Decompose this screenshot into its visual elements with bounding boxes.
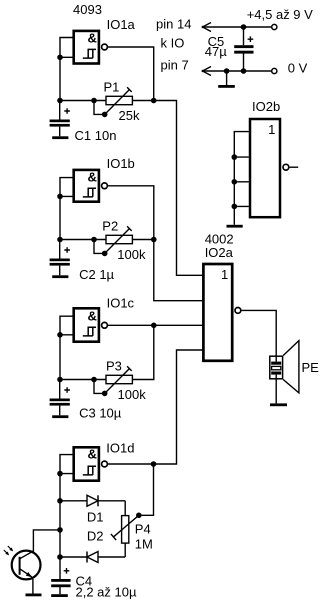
node junction collector tap	[57, 527, 63, 533]
node junction row3 left	[57, 377, 63, 383]
node junction IO1b inputs	[57, 194, 63, 200]
wire IO1b input stubs and bus	[60, 178, 74, 240]
ground below C2	[52, 275, 68, 278]
ground below C1	[52, 136, 68, 139]
diode D2	[60, 552, 125, 563]
svg-text:2,2 až 10µ: 2,2 až 10µ	[76, 585, 137, 600]
svg-text:P3: P3	[106, 359, 122, 374]
wire IO2a output to piezo	[242, 310, 277, 355]
resistor P4 (trimmer)	[111, 501, 142, 557]
wire row1 to 4002 input 1	[154, 101, 203, 276]
diode D1	[60, 495, 125, 506]
resistor P2 (trimmer)	[94, 226, 132, 256]
node junction C5 bottom	[241, 68, 247, 74]
svg-text:&: &	[88, 308, 97, 323]
svg-text:1: 1	[221, 267, 228, 282]
ground below pin7 rail	[218, 71, 235, 88]
op-amp U IO1b (NAND Schmitt gate)	[74, 170, 108, 202]
node junction ground tap	[224, 68, 230, 74]
ground below C4	[51, 594, 68, 597]
wire P2 right lead	[132, 239, 153, 241]
wire IO1c output to 4002 input 3	[107, 324, 202, 326]
node junction row2 left	[57, 237, 63, 243]
svg-text:100k: 100k	[117, 247, 146, 262]
svg-text:25k: 25k	[119, 108, 140, 123]
wire pin7 rail	[202, 67, 272, 76]
svg-text:IO2a: IO2a	[205, 245, 234, 260]
terminal +4,5 az 9V	[272, 24, 277, 29]
svg-text:&: &	[88, 31, 97, 46]
node junction IO2b input 2	[232, 154, 238, 160]
op-amp U IO2a (4002 NOR gate)	[203, 264, 240, 361]
speaker PE (piezo)	[270, 341, 299, 393]
svg-text:100k: 100k	[118, 387, 147, 402]
node junction IO1c output	[151, 323, 157, 329]
svg-text:1: 1	[268, 122, 275, 137]
op-amp U IO2b (4002 NOR gate, unused)	[250, 119, 298, 217]
svg-text:P4: P4	[135, 522, 151, 537]
svg-text:&: &	[88, 447, 97, 462]
svg-text:4093: 4093	[73, 2, 102, 17]
node junction IO2b input 4	[232, 204, 238, 210]
ground below phototransistor	[26, 594, 42, 597]
wire tap down to P4 wiper	[139, 464, 154, 515]
svg-text:IO2b: IO2b	[252, 99, 280, 114]
svg-text:pin 7: pin 7	[161, 58, 189, 73]
ground below IO2b	[227, 225, 243, 228]
node junction D2 cathode	[57, 554, 63, 560]
wire phototransistor collector	[33, 530, 60, 552]
svg-text:D1: D1	[87, 509, 104, 524]
svg-text:pin 14: pin 14	[156, 17, 191, 32]
ground below PE	[270, 380, 287, 407]
svg-text:C3 10µ: C3 10µ	[79, 406, 122, 421]
wire node row 1	[60, 100, 106, 102]
resistor P1 (trimmer)	[94, 87, 132, 117]
transistor T1 (phototransistor)	[12, 551, 41, 594]
svg-text:IO1c: IO1c	[107, 295, 135, 310]
svg-text:47µ: 47µ	[205, 44, 227, 59]
capacitor C4	[51, 557, 70, 594]
node junction row1 left	[57, 98, 63, 104]
capacitor C3	[50, 380, 70, 416]
op-amp U IO1a (NAND Schmitt gate)	[74, 31, 108, 64]
resistor P3 (trimmer)	[94, 366, 132, 396]
svg-text:D2: D2	[87, 529, 104, 544]
light arrows into phototransistor	[4, 546, 13, 555]
wire IO1b output down to 4002 input 2	[107, 186, 202, 301]
wire IO1c output tap down to P3	[132, 325, 153, 379]
wire IO1d input stubs and bus	[60, 455, 74, 557]
node junction IO1b output / row2	[151, 237, 157, 243]
svg-text:+4,5 až 9 V: +4,5 až 9 V	[247, 7, 313, 22]
node junction row1 wiper tap	[91, 98, 97, 104]
svg-text:0 V: 0 V	[288, 60, 308, 75]
svg-text:&: &	[88, 170, 97, 185]
wire P1 right lead to IO1a output vertical	[132, 100, 153, 102]
node junction IO1a output / row1	[151, 98, 157, 104]
node junction row2 wiper tap	[91, 237, 97, 243]
terminal 0 V	[272, 68, 277, 73]
wire IO2b grounded inputs bus	[234, 132, 249, 225]
node junction IO2b input 3	[232, 179, 238, 185]
svg-text:C2 1µ: C2 1µ	[79, 267, 114, 282]
node junction IO1a inputs	[57, 55, 63, 61]
wire IO1a output down	[107, 47, 153, 101]
wire IO1d output to 4002 input 4	[107, 350, 202, 464]
capacitor C5	[234, 27, 253, 71]
node junction IO1d inputs	[57, 471, 63, 477]
svg-text:C1 10n: C1 10n	[75, 128, 117, 143]
svg-text:IO1d: IO1d	[106, 440, 134, 455]
wire pin14 arrow to supply	[202, 23, 272, 32]
svg-text:IO1b: IO1b	[107, 156, 135, 171]
node junction D1 anode	[57, 498, 63, 504]
wire node row 2	[60, 239, 106, 241]
ground below C3	[52, 415, 68, 418]
wire IO1a input stubs and bus	[60, 38, 74, 101]
node junction supply / C5 top	[241, 24, 247, 30]
svg-text:PE: PE	[302, 360, 320, 375]
op-amp U IO1c (NAND Schmitt gate)	[74, 308, 108, 341]
wire node row 3	[60, 379, 106, 381]
svg-text:k IO: k IO	[161, 36, 185, 51]
capacitor C1	[50, 101, 70, 137]
svg-text:IO1a: IO1a	[107, 17, 136, 32]
node junction IO1d output tap	[151, 461, 157, 467]
capacitor C2	[50, 240, 70, 276]
wire IO1c input stubs and bus	[60, 316, 74, 379]
svg-text:1M: 1M	[135, 536, 153, 551]
svg-text:P2: P2	[102, 219, 118, 234]
node junction row3 wiper tap	[91, 377, 97, 383]
svg-text:P1: P1	[104, 79, 120, 94]
node junction IO1c inputs	[57, 332, 63, 338]
op-amp U IO1d (NAND Schmitt gate)	[74, 447, 108, 481]
